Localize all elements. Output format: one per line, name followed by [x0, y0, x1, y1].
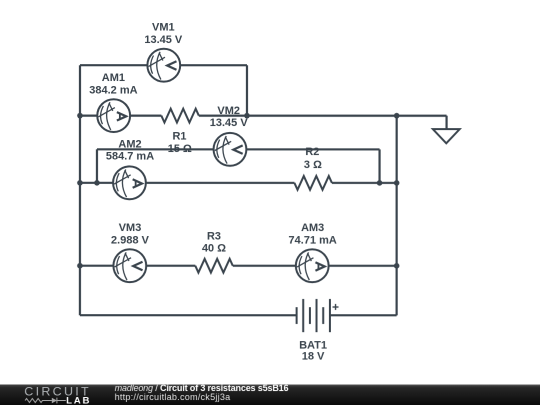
- resistor R2 labels: [304, 146, 322, 171]
- svg-text:VM2: VM2: [217, 105, 240, 117]
- node left bus row2: [77, 113, 83, 119]
- wire row3 right drop: [378, 149, 380, 182]
- svg-text:13.45 V: 13.45 V: [144, 34, 183, 46]
- battery BAT1: [297, 299, 330, 332]
- wire row3 VM2 branch: [97, 148, 380, 150]
- voltmeter VM3 labels: [111, 222, 150, 246]
- svg-text:2.988 V: 2.988 V: [111, 234, 150, 246]
- node left bus row5: [77, 263, 83, 269]
- ammeter AM3: [296, 249, 329, 282]
- wire row5 right segment: [233, 265, 397, 267]
- node right bus row5: [394, 263, 400, 269]
- wire row2 right segment to ground branch: [199, 115, 447, 117]
- resistor R1 labels: [168, 131, 192, 155]
- ground symbol: [433, 129, 460, 143]
- resistor R1: [161, 109, 199, 123]
- svg-text:15 Ω: 15 Ω: [168, 143, 192, 155]
- ammeter AM2 labels: [106, 139, 154, 163]
- svg-text:R2: R2: [305, 146, 319, 158]
- voltmeter VM1: [147, 49, 180, 82]
- wire right bus: [396, 116, 398, 316]
- node right bus row4: [394, 180, 400, 186]
- ammeter AM1: [97, 99, 130, 132]
- node VM2 drop row4: [377, 180, 383, 186]
- svg-text:40 Ω: 40 Ω: [202, 243, 226, 255]
- resistor R3: [195, 259, 233, 273]
- wire bottom rail left of battery: [80, 314, 297, 316]
- battery BAT1 plus sign: [333, 304, 339, 310]
- svg-text:AM1: AM1: [102, 72, 125, 84]
- svg-text:384.2 mA: 384.2 mA: [89, 85, 137, 97]
- node VM1 drop row2: [244, 113, 250, 119]
- wire row5 left segment: [80, 265, 195, 267]
- svg-text:584.7 mA: 584.7 mA: [106, 150, 154, 162]
- wire row4 left segment: [80, 182, 294, 184]
- resistor R3 labels: [202, 230, 226, 254]
- svg-text:AM3: AM3: [301, 222, 324, 234]
- resistor R2: [294, 176, 332, 190]
- svg-text:R1: R1: [172, 131, 186, 143]
- svg-text:LAB: LAB: [66, 396, 91, 405]
- ammeter AM2: [113, 166, 146, 199]
- svg-text:VM3: VM3: [119, 222, 142, 234]
- wire row4 right segment: [332, 182, 397, 184]
- wire top loop horizontal to VM1: [80, 64, 247, 66]
- voltmeter VM2: [214, 133, 247, 166]
- wire row2 left segment: [80, 115, 161, 117]
- ammeter AM1 labels: [89, 72, 137, 97]
- CircuitLab logo diode triangle: [52, 398, 57, 404]
- node junction dots: [77, 113, 399, 269]
- voltmeter VM2 labels: [210, 105, 249, 129]
- svg-text:3 Ω: 3 Ω: [304, 159, 322, 171]
- svg-text:18 V: 18 V: [302, 350, 325, 362]
- voltmeter VM1 labels: [144, 22, 183, 47]
- footer bar: [0, 384, 540, 405]
- svg-text:VM1: VM1: [152, 22, 175, 34]
- node stub row4: [94, 180, 100, 186]
- battery BAT1 labels: [299, 339, 327, 362]
- svg-text:R3: R3: [207, 230, 221, 242]
- svg-text:74.71 mA: 74.71 mA: [288, 234, 336, 246]
- node left bus row4: [77, 180, 83, 186]
- voltmeter VM3: [113, 249, 146, 282]
- svg-text:13.45 V: 13.45 V: [210, 117, 249, 129]
- CircuitLab logo schematic squiggle with resistor and diode: [25, 398, 66, 404]
- wire bottom rail right of battery: [330, 314, 397, 316]
- wire VM1 right drop to node: [246, 65, 248, 115]
- svg-text:http://circuitlab.com/ck5jj3a: http://circuitlab.com/ck5jj3a: [115, 392, 231, 402]
- wire ground drop: [445, 116, 447, 130]
- wire left bus: [79, 65, 81, 315]
- ammeter AM3 labels: [288, 222, 336, 247]
- wire row3 left stub down: [96, 149, 98, 183]
- node right bus row2: [394, 113, 400, 119]
- svg-text:AM2: AM2: [118, 139, 141, 151]
